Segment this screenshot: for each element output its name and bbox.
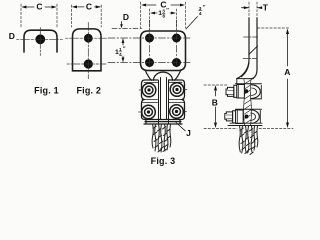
svg-text:Fig. 3: Fig. 3	[151, 156, 176, 166]
svg-text:Fig. 1: Fig. 1	[34, 86, 59, 96]
svg-text:4: 4	[199, 11, 202, 17]
svg-text:D: D	[123, 12, 129, 22]
svg-text:C: C	[86, 2, 92, 12]
svg-text:J: J	[186, 128, 191, 138]
svg-text:B: B	[212, 97, 218, 107]
svg-text:T: T	[263, 2, 269, 12]
svg-text:″: ″	[203, 5, 206, 11]
svg-text:D: D	[9, 31, 15, 41]
svg-text:″: ″	[166, 8, 169, 14]
svg-text:C: C	[36, 2, 42, 12]
svg-text:8: 8	[162, 14, 165, 20]
svg-text:A: A	[284, 67, 290, 77]
svg-text:4: 4	[119, 52, 122, 58]
svg-text:Fig. 2: Fig. 2	[76, 86, 101, 96]
svg-text:″: ″	[123, 46, 126, 52]
